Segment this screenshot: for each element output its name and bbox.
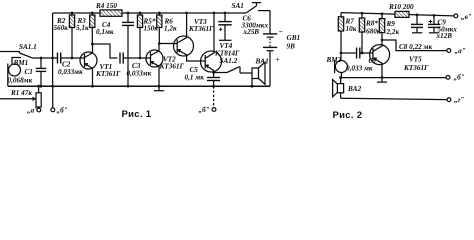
wire common b2 <box>341 77 446 79</box>
svg-text:Рис. 1: Рис. 1 <box>122 109 152 120</box>
svg-text:680к: 680к <box>366 28 381 36</box>
transistor VT1 <box>80 44 97 88</box>
node vertical line x52.5 top rail to bottom rail <box>51 13 54 86</box>
variable resistor R1 <box>0 85 41 108</box>
speaker BA2 <box>333 76 344 98</box>
top rail fig1 <box>53 12 100 14</box>
transistor VT3 <box>174 12 206 61</box>
svg-text:КТ361Г: КТ361Г <box>188 25 214 33</box>
svg-text:„б": „б" <box>199 106 210 114</box>
capacitor C4 <box>122 12 134 88</box>
resistor R2 <box>69 12 74 60</box>
svg-text:R1 47к: R1 47к <box>10 89 32 97</box>
svg-text:КТ361Г: КТ361Г <box>95 70 121 78</box>
switch SA1.1 arm <box>20 53 34 58</box>
speaker BA1 <box>240 62 265 87</box>
terminal g <box>447 98 451 102</box>
wire VT1 collector to C3 <box>92 44 117 58</box>
svg-text:КТ361Г: КТ361Г <box>159 63 185 71</box>
resistor R8 <box>359 12 364 55</box>
top rail fig2 <box>341 13 454 16</box>
svg-text:Рис. 2: Рис. 2 <box>333 110 363 121</box>
wire VT2 collector to VT3 base <box>159 43 177 45</box>
svg-text:R9: R9 <box>386 20 396 28</box>
resistor R4 <box>100 10 122 16</box>
svg-text:1,2к: 1,2к <box>164 25 177 33</box>
svg-text:9В: 9В <box>287 43 296 51</box>
svg-text:SA1: SA1 <box>232 2 244 10</box>
node VT5 collector junction <box>381 39 384 42</box>
svg-text:150к: 150к <box>144 25 159 33</box>
svg-text:0,033мк: 0,033мк <box>58 68 83 76</box>
svg-text:BM1: BM1 <box>13 59 29 67</box>
svg-text:0,033мк: 0,033мк <box>127 70 152 78</box>
ground at C6 <box>219 32 232 40</box>
bottom rail fig1 <box>8 85 270 87</box>
capacitor C6 electrolytic <box>218 12 231 33</box>
transistor VT2 <box>146 44 163 87</box>
capacitor C5 <box>207 71 220 88</box>
svg-text:R8*: R8* <box>365 20 378 28</box>
wire to terminal g <box>341 98 447 99</box>
node VT2 collector junction <box>158 42 161 45</box>
terminal b middle (dashed) <box>212 86 216 111</box>
svg-text:R4 150: R4 150 <box>95 2 117 10</box>
svg-text:GB1: GB1 <box>287 34 301 42</box>
wire collector to terminal a2 <box>382 40 447 51</box>
capacitor C1 <box>36 57 46 88</box>
terminal a <box>37 108 41 112</box>
svg-text:R10 200: R10 200 <box>388 3 414 11</box>
capacitor C7 <box>341 48 373 59</box>
svg-text:SA1.2: SA1.2 <box>220 57 238 65</box>
battery GB1 <box>263 11 277 87</box>
ground at VT5 emitter <box>377 76 387 82</box>
capacitor C9 <box>428 14 440 27</box>
capacitor C2 <box>58 53 85 64</box>
svg-text:0,068мк: 0,068мк <box>8 77 33 85</box>
svg-text:10к: 10к <box>346 25 357 33</box>
svg-text:+: + <box>276 56 280 64</box>
svg-text:„а": „а" <box>455 47 466 55</box>
svg-text:„а": „а" <box>27 107 38 115</box>
svg-text:0,033 мк: 0,033 мк <box>346 65 373 73</box>
svg-text:–: – <box>278 27 283 35</box>
capacitor C3 <box>120 53 150 64</box>
switch SA1 <box>246 3 270 13</box>
svg-text:BA2: BA2 <box>347 85 362 93</box>
svg-text:2,2к: 2,2к <box>386 28 400 36</box>
resistor R9 <box>379 12 384 40</box>
ground at VT2 emitter <box>154 85 164 91</box>
svg-text:C1: C1 <box>25 68 33 76</box>
svg-text:„в": „в" <box>461 13 472 21</box>
wire base VT1 <box>33 57 57 59</box>
wire input left to SA1.1 <box>0 52 20 54</box>
svg-text:BA1: BA1 <box>255 58 269 66</box>
svg-text:560к: 560к <box>54 24 69 32</box>
svg-text:„г": „г" <box>454 96 464 104</box>
terminal b2 <box>446 76 450 80</box>
svg-text:C8 0,22 мк: C8 0,22 мк <box>399 43 432 51</box>
transistor VT5 <box>370 40 390 78</box>
svg-text:КТ361Г: КТ361Г <box>403 64 429 72</box>
resistor R10 <box>395 11 409 17</box>
resistor R5 <box>137 12 142 60</box>
node VT1 collector junction <box>91 43 94 46</box>
svg-text:0,1 мк: 0,1 мк <box>185 74 205 82</box>
resistor R7 <box>338 13 343 61</box>
resistor R3 <box>90 12 95 44</box>
switch SA1.2 <box>214 67 240 73</box>
terminal a2 <box>447 49 451 53</box>
svg-text:х25В: х25В <box>243 28 260 36</box>
resistor R6 <box>157 12 162 44</box>
svg-text:х12В: х12В <box>436 32 453 40</box>
microphone BM2 <box>335 60 348 78</box>
svg-text:„б": „б" <box>57 107 68 115</box>
svg-text:„б": „б" <box>454 74 465 82</box>
microphone BM1 <box>8 58 21 87</box>
svg-text:0,1мк: 0,1мк <box>96 28 114 36</box>
svg-text:5,1к: 5,1к <box>76 24 89 32</box>
capacitor C8 <box>411 14 423 28</box>
transistor VT4 <box>201 12 222 73</box>
ground at C9 <box>429 27 439 32</box>
terminal v <box>454 14 458 18</box>
svg-text:SA1.1: SA1.1 <box>19 43 37 51</box>
svg-text:VT5: VT5 <box>409 56 422 64</box>
ground at C8 <box>412 27 422 32</box>
terminal b left <box>51 85 55 112</box>
svg-text:BM2: BM2 <box>326 56 342 64</box>
